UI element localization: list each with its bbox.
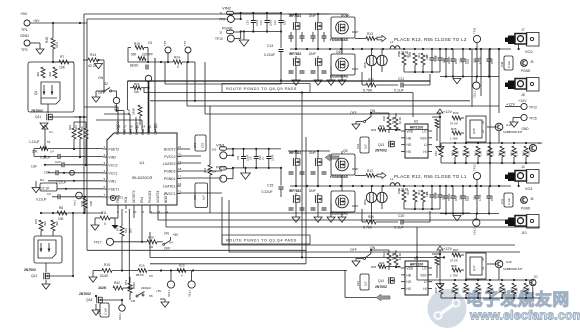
svg-text:R10: R10: [74, 124, 78, 130]
connector J10: [505, 215, 539, 236]
wire ladder bottom rail: [441, 162, 540, 164]
svg-text:R40: R40: [451, 151, 455, 156]
transistor Q14 2N7002: [375, 277, 394, 289]
resistor R13: [355, 32, 377, 41]
svg-text:VIN2: VIN2: [222, 6, 232, 11]
svg-text:DNP: DNP: [352, 67, 358, 71]
svg-text:10K: 10K: [59, 66, 66, 70]
svg-text:C16: C16: [356, 280, 360, 286]
relay box Q15: [466, 116, 486, 142]
svg-text:HI: HI: [423, 150, 426, 154]
net label VO1: [525, 187, 533, 191]
watermark url: [469, 307, 580, 322]
svg-text:DNP: DNP: [490, 58, 494, 64]
svg-text:22UF: 22UF: [269, 19, 273, 26]
net label PGND: [521, 69, 531, 73]
resistor R56 5.76K: [362, 215, 398, 230]
svg-text:J7: J7: [521, 28, 525, 32]
ground: [241, 168, 251, 179]
wire: [0, 0, 1, 1]
wire VIN2 rail: [241, 12, 282, 14]
svg-text:C33: C33: [466, 196, 470, 201]
svg-text:2N7002: 2N7002: [31, 109, 43, 113]
svg-text:R51: R51: [124, 279, 128, 285]
test point TP12b: [473, 77, 480, 99]
svg-text:R65: R65: [371, 265, 377, 269]
svg-text:+5V: +5V: [33, 19, 40, 23]
svg-text:C27: C27: [473, 58, 477, 63]
svg-text:TP11: TP11: [473, 27, 477, 34]
capacitor C ch2: [451, 49, 459, 77]
resistor R38 10.0K: [394, 113, 402, 131]
svg-text:R46: R46: [522, 151, 526, 156]
wire +5V rail: [30, 22, 87, 24]
svg-text:TP17: TP17: [94, 241, 102, 245]
svg-text:C5: C5: [148, 41, 152, 45]
capacitor C3 1.21uF: [29, 140, 51, 144]
transistor Q16 box: [330, 49, 358, 85]
resistor R1 499: [36, 67, 45, 78]
transistor Q4: [315, 195, 322, 203]
resistor R61 604: [397, 188, 410, 209]
capacitor C24 DNP: [425, 186, 438, 209]
svg-text:EN2: EN2: [141, 129, 145, 135]
capacitor C25 ch2: [442, 49, 452, 77]
svg-text:1.8K: 1.8K: [467, 287, 471, 293]
ground: [436, 147, 444, 152]
test point TP5: [163, 40, 171, 62]
wire: [361, 209, 363, 222]
capacitor C ch1: [487, 186, 495, 214]
svg-text:R26: R26: [80, 201, 84, 207]
wire net routeA: [144, 88, 413, 117]
svg-text:+5V: +5V: [20, 11, 28, 16]
wire FSET1 pin6: [57, 188, 103, 190]
svg-text:TP2: TP2: [21, 48, 28, 52]
svg-text:R56: R56: [368, 215, 374, 219]
svg-text:VO2: VO2: [129, 128, 133, 135]
net arrow gate1: [325, 154, 339, 161]
svg-text:J12: J12: [533, 275, 538, 279]
wire: [296, 193, 318, 217]
capacitor C48 0.1uF: [500, 56, 513, 70]
svg-text:A1: A1: [481, 266, 485, 270]
note box ROUTE PGND2: [222, 84, 310, 93]
wire: [498, 181, 520, 187]
svg-text:R15: R15: [104, 263, 110, 267]
test point TP15: [513, 114, 537, 120]
svg-text:23: 23: [148, 125, 152, 129]
svg-text:Q11: Q11: [35, 115, 41, 119]
wire pin10-11 drops: [134, 209, 143, 243]
wire top pin drops: [84, 107, 124, 129]
ground: [89, 271, 97, 283]
resistor R11 0: [100, 211, 110, 226]
wire: [370, 112, 389, 117]
svg-text:0: 0: [104, 222, 106, 226]
svg-text:49.9: 49.9: [55, 42, 59, 48]
LED J12: [530, 275, 539, 299]
transistor J9: [521, 60, 534, 67]
svg-text:1.78K: 1.78K: [450, 274, 458, 278]
svg-text:HB: HB: [407, 273, 411, 277]
transistor J6: [521, 197, 534, 204]
resistor R12: [355, 169, 377, 178]
svg-text:DNP: DNP: [309, 14, 316, 18]
capacitor C11 22uF: [236, 149, 250, 168]
svg-text:R34: R34: [453, 111, 459, 115]
svg-text:499: 499: [36, 72, 40, 77]
wire: [128, 48, 155, 63]
svg-text:G15: G15: [506, 123, 512, 127]
wire net routeC: [187, 62, 499, 106]
wire sense row: [128, 61, 195, 63]
transistor Q3 IRF7832: [289, 189, 316, 203]
inductor L2 3.3uH: [390, 40, 409, 55]
svg-text:EP: EP: [116, 194, 120, 198]
resistor R15 53.6K: [97, 263, 138, 278]
resistor ladder 2: [451, 283, 531, 298]
svg-text:57.6K: 57.6K: [450, 259, 458, 263]
svg-text:BOOT2: BOOT2: [164, 147, 176, 151]
svg-text:A2: A2: [481, 257, 485, 261]
svg-text:22.1K: 22.1K: [41, 187, 50, 191]
ground: [36, 49, 44, 54]
svg-text:VDD: VDD: [407, 129, 414, 133]
wire: [432, 116, 441, 118]
test point TP3: [112, 91, 120, 111]
svg-text:G16: G16: [506, 260, 512, 264]
ground: [110, 218, 119, 229]
transistor Q7: [315, 22, 322, 30]
resistor R17 51K: [116, 209, 133, 272]
svg-text:R17: R17: [116, 225, 120, 231]
svg-text:1.8K: 1.8K: [456, 287, 460, 293]
svg-text:DNP: DNP: [309, 151, 316, 155]
U1 left pins 1-7: [103, 145, 123, 199]
svg-text:20K: 20K: [32, 150, 39, 154]
svg-text:4.7uF: 4.7uF: [433, 192, 437, 199]
svg-text:HO: HO: [407, 143, 412, 147]
dual transistor Q12: [38, 240, 56, 258]
svg-text:L1: L1: [390, 177, 394, 181]
svg-text:11: 11: [141, 210, 144, 214]
wire VIN1 rail: [233, 148, 281, 150]
svg-text:C14: C14: [267, 44, 273, 48]
svg-text:590: 590: [131, 53, 137, 57]
svg-text:R57: R57: [397, 51, 401, 57]
svg-text:R58: R58: [363, 62, 367, 68]
ground: [91, 218, 100, 230]
resistor R68 1.78K: [450, 264, 464, 278]
svg-text:249K: 249K: [132, 108, 136, 115]
svg-text:PGND2: PGND2: [164, 170, 176, 174]
ground: [92, 304, 100, 315]
resistor R57 604: [397, 51, 410, 72]
svg-text:DNP: DNP: [454, 195, 458, 201]
svg-text:LI: LI: [424, 280, 427, 284]
ground: [453, 79, 461, 84]
capacitor: [289, 172, 327, 174]
resistor R27 499: [51, 220, 59, 231]
svg-text:R53: R53: [486, 288, 490, 293]
test point TP17: [94, 238, 148, 245]
svg-text:TP13: TP13: [529, 106, 537, 110]
resistor R69 DNP: [434, 283, 443, 298]
U1 thermal pad EP: [110, 194, 120, 201]
svg-text:A2: A2: [481, 120, 485, 124]
transistor Q1 IRF7821: [289, 151, 316, 166]
svg-text:TP13: TP13: [473, 164, 477, 171]
svg-text:28: 28: [117, 125, 121, 129]
svg-text:PVCC2: PVCC2: [164, 155, 175, 159]
test point TP4: [73, 192, 83, 206]
resistor R28: [138, 264, 147, 273]
wire: [346, 14, 348, 17]
capacitor C23 4.7uF: [433, 49, 443, 72]
svg-text:PGND: PGND: [216, 166, 227, 170]
svg-text:PGND: PGND: [521, 69, 531, 73]
wire: [370, 249, 389, 254]
svg-text:R55: R55: [510, 288, 514, 293]
capacitor C12 22uF: [259, 13, 273, 32]
svg-text:SUB85N06-8JT: SUB85N06-8JT: [503, 267, 523, 271]
ground: [292, 80, 300, 85]
svg-text:S2: S2: [104, 82, 108, 86]
wire boot2: [181, 148, 190, 150]
svg-text:LGATE2: LGATE2: [163, 162, 176, 166]
svg-text:1UF: 1UF: [31, 165, 37, 169]
wire feedback row: [148, 269, 347, 271]
ground: [314, 80, 322, 85]
wire: [0, 0, 1, 1]
svg-text:0.1uF: 0.1uF: [104, 308, 108, 315]
svg-text:Q1: Q1: [34, 91, 38, 95]
wire: [165, 60, 282, 102]
svg-text:604: 604: [417, 190, 421, 195]
capacitor C22 DNP: [425, 49, 438, 72]
ground: [453, 216, 461, 221]
capacitor C6 2200pF: [136, 273, 161, 293]
net arrow gate2: [376, 294, 390, 301]
svg-text:R7: R7: [60, 55, 64, 59]
svg-text:DNP: DNP: [352, 167, 358, 171]
capacitor: [289, 32, 305, 42]
wire frame left: [83, 14, 85, 213]
resistor ladder R41-R47: [451, 146, 531, 163]
note box ROUTE PGND1: [222, 235, 310, 244]
svg-text:10K: 10K: [134, 90, 139, 94]
svg-text:S5: S5: [149, 294, 153, 298]
svg-text:OFF: OFF: [164, 247, 170, 251]
wire: [471, 49, 473, 107]
capacitor C50 1uF: [193, 135, 206, 151]
resistor R63 10.0K: [382, 250, 395, 270]
test point TP7: [183, 40, 191, 62]
svg-text:R29: R29: [179, 264, 185, 268]
svg-text:DNP: DNP: [352, 30, 358, 34]
connector J4 VO1: [505, 165, 539, 183]
net arrow: [377, 36, 386, 42]
wire: [404, 71, 440, 73]
svg-text:C31: C31: [473, 195, 477, 200]
svg-text:R16: R16: [139, 264, 145, 268]
svg-text:R54: R54: [68, 124, 72, 130]
svg-text:0.22UF: 0.22UF: [264, 53, 275, 57]
svg-text:TP7: TP7: [183, 40, 187, 46]
resistor R59 604: [408, 51, 421, 72]
note PLACE R13: [394, 37, 467, 42]
svg-text:OFF: OFF: [350, 111, 357, 115]
svg-text:J1: J1: [219, 11, 223, 15]
svg-text:PGND: PGND: [521, 207, 531, 211]
power +12V: [437, 246, 452, 283]
capacitor C29 ch1: [442, 186, 452, 214]
ground: [32, 181, 40, 193]
box around Q12 pair: [34, 220, 62, 263]
capacitor C27 ch2: [473, 49, 483, 77]
svg-text:162K: 162K: [98, 286, 107, 290]
svg-text:2200pF: 2200pF: [141, 286, 151, 290]
diode D3: [366, 49, 376, 85]
capacitor 1uF b: [44, 170, 103, 175]
wire bottom bus 1: [150, 256, 445, 258]
svg-text:DNP: DNP: [352, 204, 358, 208]
svg-text:C4: C4: [50, 150, 54, 154]
svg-text:TP20: TP20: [188, 290, 192, 297]
svg-text:J10: J10: [521, 231, 527, 235]
svg-text:1.8K: 1.8K: [515, 150, 519, 156]
svg-text:VIN2: VIN2: [109, 155, 117, 159]
svg-text:0.1uF: 0.1uF: [507, 61, 511, 68]
svg-text:PHASE1: PHASE1: [148, 190, 152, 203]
wire frame top: [84, 13, 347, 15]
capacitor C14 0.22uF: [264, 32, 284, 61]
svg-text:C53: C53: [193, 194, 197, 200]
svg-text:R12: R12: [367, 169, 373, 173]
svg-text:GND: GND: [522, 127, 530, 131]
switch S2: [98, 76, 112, 95]
resistor R53: [203, 106, 212, 213]
net label PGND: [521, 207, 531, 211]
wire gnd rail ch2: [440, 75, 499, 77]
capacitor: [289, 208, 327, 210]
transistor Q10 box: [330, 13, 358, 49]
svg-text:www.elecfans.com: www.elecfans.com: [469, 307, 580, 322]
svg-text:HB: HB: [407, 136, 411, 140]
svg-text:0.1UF: 0.1UF: [394, 226, 405, 230]
resistor R2 499: [48, 67, 57, 78]
svg-text:J11: J11: [538, 141, 543, 145]
svg-text:ROUTE PGND2 TO Q8,Q9 PADS: ROUTE PGND2 TO Q8,Q9 PADS: [226, 86, 297, 91]
resistor R64 10.0K: [394, 250, 402, 268]
wire: [47, 104, 49, 113]
svg-text:330uF: 330uF: [447, 56, 451, 64]
svg-text:VSS: VSS: [420, 136, 426, 140]
capacitor C8 88.6K: [130, 64, 148, 70]
svg-text:TP18: TP18: [118, 313, 122, 320]
svg-text:FDS6690AS: FDS6690AS: [330, 75, 348, 79]
svg-text:EN1: EN1: [140, 197, 144, 203]
capacitor C ch1: [451, 186, 459, 214]
capacitor C41 0.1uF: [500, 193, 513, 207]
svg-text:R24: R24: [174, 56, 180, 60]
svg-text:SUB85N06-8JT: SUB85N06-8JT: [503, 130, 523, 134]
power flag: [42, 125, 53, 149]
capacitor C ch2: [487, 49, 495, 77]
resistor R42 162K: [98, 281, 135, 290]
test point TP2 GND: [20, 33, 30, 52]
svg-text:Q5: Q5: [343, 149, 348, 153]
test point TP14: [473, 214, 480, 236]
svg-text:VCC1: VCC1: [109, 171, 118, 175]
transistor Q19 SUB85N06: [495, 260, 523, 271]
svg-text:2N7002: 2N7002: [79, 292, 91, 296]
svg-text:C24: C24: [425, 192, 429, 197]
test point TP20: [188, 271, 196, 298]
svg-text:5.76K: 5.76K: [363, 89, 373, 93]
wire pgnd route 2: [305, 137, 307, 264]
wire: [416, 227, 418, 280]
wire: [181, 178, 222, 193]
wire pin8: [110, 205, 118, 218]
diode D5: [421, 53, 429, 72]
svg-text:C17: C17: [96, 308, 100, 314]
wire TP9 feed: [87, 18, 227, 20]
transistor Q12 2N7002: [24, 268, 49, 279]
capacitor C16 1uF: [356, 274, 369, 290]
svg-text:51K: 51K: [124, 228, 128, 233]
svg-text:C34: C34: [466, 59, 470, 64]
svg-text:1.8K: 1.8K: [479, 287, 483, 293]
svg-text:R53: R53: [203, 167, 207, 173]
svg-text:R61: R61: [397, 188, 401, 194]
wire: [404, 208, 440, 210]
wire: [154, 58, 156, 129]
svg-text:C41: C41: [500, 198, 504, 204]
resistor R29 0: [177, 264, 186, 278]
svg-text:HS: HS: [407, 287, 411, 291]
transistor Q8 IRF7832: [289, 52, 316, 66]
capacitor: [289, 71, 327, 73]
svg-text:+5V: +5V: [173, 233, 180, 237]
svg-text:R36: R36: [371, 128, 377, 132]
connector J1 VIN2: [219, 6, 241, 16]
wire frame left inner: [87, 19, 306, 250]
capacitor 1uF a: [31, 160, 103, 169]
wire ladder top rail 2: [417, 279, 530, 281]
svg-text:18: 18: [178, 167, 182, 171]
transistor Q2: [315, 158, 322, 166]
svg-text:DNP: DNP: [309, 52, 316, 56]
wire: [149, 232, 151, 258]
capacitor C20 0.1uF: [394, 211, 430, 230]
ground: [160, 299, 169, 307]
svg-text:R14: R14: [90, 53, 96, 57]
svg-text:1.8K: 1.8K: [503, 150, 507, 156]
svg-text:J4: J4: [521, 165, 525, 169]
svg-text:1uF: 1uF: [202, 195, 206, 200]
ground: [314, 217, 322, 222]
ground: [292, 217, 300, 222]
svg-text:16: 16: [178, 182, 182, 186]
test point TP10: [215, 30, 242, 42]
resistor R37 604: [371, 124, 400, 132]
svg-text:HI: HI: [423, 287, 426, 291]
capacitor C15 0.22uF: [262, 168, 284, 197]
diode D6: [421, 190, 429, 209]
wire thick sense: [148, 82, 150, 133]
